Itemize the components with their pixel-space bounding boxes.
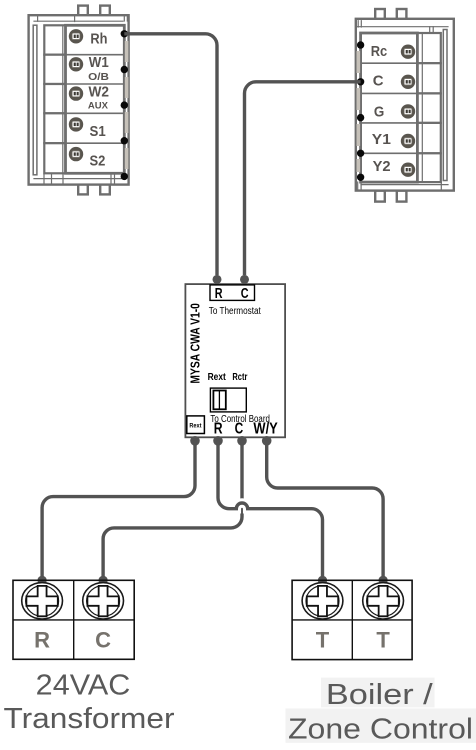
U1 Rext terminal box bbox=[187, 416, 205, 434]
svg-text:S2: S2 bbox=[90, 153, 106, 169]
J2 mounting tab top-right bbox=[397, 9, 407, 20]
svg-text:MYSA CWA V1-0: MYSA CWA V1-0 bbox=[189, 303, 203, 384]
J2 node Rc connection dot bbox=[357, 41, 364, 48]
svg-text:Rc: Rc bbox=[371, 44, 388, 60]
J2 node C connection dot bbox=[357, 78, 364, 85]
J1 node S1 connection dot bbox=[121, 137, 128, 144]
wire C end dot at U1.C bbox=[240, 275, 249, 284]
J1 node W2 connection dot bbox=[121, 101, 128, 108]
J1 wire-entry cell column bbox=[44, 25, 65, 173]
transformer TR1 terminal block (24VAC) bbox=[13, 580, 134, 659]
J1 housing detail lines bbox=[34, 15, 127, 183]
svg-text:Zone Control: Zone Control bbox=[288, 714, 473, 746]
thermostat terminal block J1 (left, heat side) bbox=[29, 6, 129, 195]
svg-text:Rext: Rext bbox=[189, 423, 201, 430]
wire W/Y end dot at boiler T2 bbox=[379, 576, 388, 585]
J2 outer housing bbox=[356, 19, 454, 191]
wire C end dot at transformer C bbox=[99, 576, 108, 585]
svg-text:W/Y: W/Y bbox=[253, 420, 278, 437]
svg-text:R: R bbox=[214, 420, 223, 437]
TB1 block outline bbox=[292, 580, 412, 659]
J2 mounting tab bottom-right bbox=[397, 191, 407, 202]
svg-text:S1: S1 bbox=[90, 124, 106, 140]
svg-text:Rh: Rh bbox=[90, 32, 107, 48]
J1 mounting tab bottom-right bbox=[100, 183, 110, 194]
TR1 screw C (phillips head) bbox=[83, 583, 124, 619]
wire C (U1) to C (24VAC transformer) bbox=[99, 436, 247, 585]
svg-text:T: T bbox=[316, 628, 330, 653]
J2 terminal row divider lines bbox=[361, 63, 418, 153]
TR1 screw R (phillips head) bbox=[22, 583, 63, 619]
boiler/zone-control terminal block TB1 bbox=[292, 580, 412, 659]
J2 mounting tab bottom-left bbox=[375, 191, 385, 202]
svg-text:AUX: AUX bbox=[88, 100, 109, 111]
svg-text:Rctr: Rctr bbox=[232, 372, 247, 383]
J1 screw terminal S2 bbox=[69, 147, 83, 161]
TR1 cell divider horizontal bbox=[13, 619, 134, 621]
wire C (J2) to C (U1 To Thermostat) bbox=[240, 82, 361, 284]
value label: Boiler / Zone Control caption bbox=[286, 678, 476, 746]
thermostat terminal block J2 (right, cool side) bbox=[356, 9, 454, 202]
J2 connector shading strip bbox=[357, 51, 361, 172]
J2 screw terminal G bbox=[401, 104, 415, 118]
J1 screw terminal W2 bbox=[69, 86, 83, 100]
J1 terminal row area bbox=[66, 25, 125, 173]
TB1 cell divider horizontal bbox=[292, 619, 412, 621]
wire Rext end dot at transformer R bbox=[38, 576, 47, 585]
J1 screw terminal W1 bbox=[69, 57, 83, 71]
svg-text:R: R bbox=[34, 628, 50, 653]
svg-text:O/B: O/B bbox=[88, 72, 109, 83]
wire W/Y start dot at U1 bbox=[262, 436, 272, 446]
svg-text:R: R bbox=[215, 286, 223, 302]
J1 node W1 connection dot bbox=[121, 66, 128, 73]
svg-text:Y1: Y1 bbox=[372, 132, 391, 148]
svg-text:24VAC: 24VAC bbox=[36, 670, 131, 702]
TB1 screw T1 (phillips head) bbox=[302, 583, 343, 619]
J1 mounting tab top-right bbox=[100, 6, 110, 17]
J1 node S2 connection dot bbox=[121, 173, 128, 180]
svg-text:C: C bbox=[235, 420, 244, 437]
svg-text:Rext: Rext bbox=[208, 372, 227, 383]
J1 release lever (left) bbox=[33, 25, 37, 175]
wire Rh end dot at U1.R bbox=[213, 275, 222, 284]
svg-text:C: C bbox=[95, 628, 111, 653]
J1 mounting tab top-left bbox=[78, 6, 88, 17]
J2 screw terminal C bbox=[401, 75, 415, 89]
svg-text:Y2: Y2 bbox=[373, 159, 391, 175]
J1 mounting tab bottom-left bbox=[78, 183, 88, 194]
U1 switch SW1 (Rext/Rctr selector) bbox=[210, 388, 246, 412]
U1 body bbox=[185, 284, 285, 437]
J1 terminal row divider lines bbox=[66, 55, 125, 144]
J1 connector shading strip bbox=[125, 41, 129, 169]
wire Rext start dot at U1 bbox=[190, 436, 200, 446]
value label: 24VAC Transformer caption bbox=[4, 670, 176, 736]
J2 node Y2 connection dot bbox=[357, 174, 364, 181]
TB1 cell divider vertical bbox=[351, 580, 353, 659]
J1 screw terminal S1 bbox=[69, 117, 83, 131]
J2 mounting tab top-left bbox=[375, 9, 385, 20]
svg-text:T: T bbox=[376, 628, 390, 653]
J2 screw terminal Rc bbox=[401, 45, 415, 59]
wire W/Y (U1) to T (boiler right) bbox=[262, 436, 388, 585]
wire R start dot at U1 bbox=[213, 436, 223, 446]
J2 terminal row area bbox=[361, 33, 418, 182]
TR1 block outline bbox=[13, 580, 134, 659]
svg-text:To Thermostat: To Thermostat bbox=[209, 306, 261, 317]
svg-text:W2: W2 bbox=[89, 85, 110, 101]
J2 screw terminal Y1 bbox=[401, 134, 415, 148]
J2 screw terminal Y2 bbox=[401, 163, 415, 177]
J2 node G connection dot bbox=[357, 114, 364, 121]
svg-text:W1: W1 bbox=[89, 55, 109, 71]
device U1 MYSA CWA V1-0 external powering adapter bbox=[185, 284, 285, 437]
J2 release lever (right) bbox=[443, 30, 447, 181]
wire R (U1) to T (boiler left), hops over wire C bbox=[213, 436, 327, 585]
J2 wire-entry cell column bbox=[417, 33, 440, 182]
J2 housing detail lines bbox=[358, 21, 449, 190]
svg-text:G: G bbox=[374, 104, 384, 120]
J1 node Rh connection dot bbox=[121, 30, 128, 37]
wire Rext (U1) to R (24VAC transformer) bbox=[38, 436, 200, 585]
J2 node Y1 connection dot bbox=[357, 150, 364, 157]
wire Rh (J1) to R (U1 To Thermostat) bbox=[124, 34, 221, 284]
TR1 cell divider vertical bbox=[73, 580, 75, 659]
svg-text:Transformer: Transformer bbox=[4, 703, 176, 735]
U1 To Thermostat header box bbox=[210, 285, 255, 301]
J1 screw terminal Rh bbox=[69, 29, 83, 43]
wire R hop casing (white break over wire C) bbox=[233, 503, 251, 509]
svg-text:Boiler /: Boiler / bbox=[326, 679, 433, 711]
svg-text:C: C bbox=[373, 74, 384, 90]
TB1 screw T2 (phillips head) bbox=[363, 583, 404, 619]
J1 outer housing bbox=[29, 15, 129, 184]
svg-text:C: C bbox=[241, 286, 249, 302]
wire R end dot at boiler T1 bbox=[318, 576, 327, 585]
wire C start dot at U1 bbox=[237, 436, 247, 446]
